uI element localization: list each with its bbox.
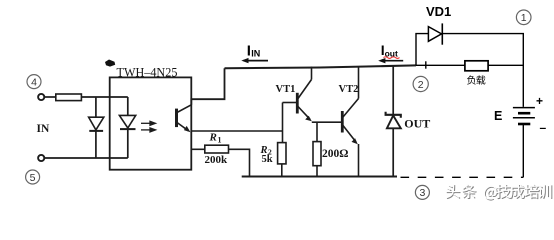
labels overlay (sans) xyxy=(247,4,547,134)
svg-text:out: out xyxy=(385,48,398,58)
node 2 xyxy=(413,76,428,91)
svg-text:E: E xyxy=(494,109,502,123)
svg-text:VT2: VT2 xyxy=(339,84,359,95)
light arrows xyxy=(141,121,156,132)
wire 200ohm bottom xyxy=(316,166,318,177)
node 5 terminal circle xyxy=(38,155,44,161)
node 5 xyxy=(26,170,40,184)
wire collector riser xyxy=(191,68,224,105)
wire down to 200ohm xyxy=(316,122,318,141)
svg-text:+: + xyxy=(536,94,543,108)
wire xyxy=(81,96,127,98)
svg-text:VD1: VD1 xyxy=(426,4,451,19)
red squiggle under out xyxy=(384,57,400,59)
svg-text:5: 5 xyxy=(30,172,36,184)
wire node2 to load xyxy=(416,64,465,66)
svg-text:TWH–4N25: TWH–4N25 xyxy=(117,66,178,80)
cursor blob artifact xyxy=(105,60,115,67)
svg-text:5k: 5k xyxy=(262,154,273,165)
resistor input (unlabeled) xyxy=(56,94,82,101)
svg-text:OUT: OUT xyxy=(404,116,430,130)
svg-text:200k: 200k xyxy=(205,154,229,166)
wire VD1 cathode to right corner xyxy=(442,34,523,107)
node 4 xyxy=(27,75,41,89)
I_out arrow xyxy=(378,58,403,63)
svg-text:3: 3 xyxy=(419,187,425,199)
labels scanned (serif) xyxy=(37,66,431,166)
wire dashed return xyxy=(401,176,524,178)
battery E xyxy=(513,107,535,109)
svg-text:–: – xyxy=(540,121,547,135)
resistor R1 xyxy=(205,145,229,153)
optocoupler box TWH-4N25 xyxy=(110,77,192,169)
wire base node vertical xyxy=(282,103,284,143)
wire R2 bottom xyxy=(281,164,283,177)
wire to R1 xyxy=(191,148,205,150)
transistor VT2 xyxy=(342,67,358,177)
diode input protection xyxy=(89,97,104,158)
tick node 2 xyxy=(425,61,427,68)
circled terminal numbers xyxy=(26,10,531,199)
top rail xyxy=(225,65,417,68)
svg-text:1: 1 xyxy=(218,136,222,145)
wire VT1 base lead xyxy=(283,102,297,104)
label load (负载) xyxy=(467,75,485,84)
node 3 xyxy=(415,185,429,199)
load box xyxy=(465,61,488,71)
LED in optocoupler xyxy=(119,97,135,158)
wire emitter to base node xyxy=(191,130,282,132)
svg-text:2: 2 xyxy=(418,79,424,91)
node 4 terminal circle xyxy=(38,94,44,100)
wire load to battery vertical xyxy=(488,64,523,66)
transistor VT1 xyxy=(297,67,312,122)
wire bottom xyxy=(44,157,127,159)
wire R1 right down to rail xyxy=(229,149,250,176)
svg-text:1: 1 xyxy=(521,12,527,24)
resistor R2 xyxy=(278,143,286,164)
resistor 200ohm xyxy=(313,142,321,166)
wire xyxy=(44,96,55,98)
overlay wires (thin, clean) xyxy=(401,23,535,177)
svg-text:VT1: VT1 xyxy=(276,84,296,95)
wire VT1 emitter to VT2 base xyxy=(312,121,341,123)
svg-text:IN: IN xyxy=(251,49,260,59)
svg-text:IN: IN xyxy=(37,123,50,135)
wire VD1 anode riser xyxy=(416,34,428,66)
phototransistor xyxy=(177,105,192,133)
node 1 xyxy=(516,10,531,25)
svg-text:200Ω: 200Ω xyxy=(322,148,348,160)
wire battery minus down xyxy=(522,124,524,177)
I_IN arrow xyxy=(241,58,268,63)
svg-text:4: 4 xyxy=(31,76,37,88)
svg-text:R: R xyxy=(209,132,217,144)
zener diode OUT xyxy=(386,66,401,177)
diode VD1 xyxy=(428,27,441,42)
bottom rail xyxy=(242,176,397,178)
